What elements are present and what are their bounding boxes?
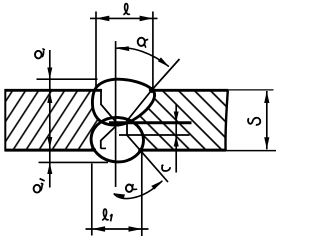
top alpha arc with arrows bbox=[117, 48, 169, 67]
left plate right edge vertical bbox=[100, 90, 102, 105]
right plate root face bbox=[126, 120, 128, 136]
left plate bottom bevel wall bbox=[101, 127, 116, 149]
bead bottom reference line bbox=[39, 161, 109, 163]
bottom weld bead outline bbox=[90, 116, 145, 164]
g arrow up to plate top surface bbox=[47, 91, 52, 103]
g1 arrow up to bead bottom line bbox=[47, 163, 52, 174]
c dimension vertical line bbox=[175, 104, 177, 173]
label g (rotated) bbox=[35, 49, 45, 58]
bead top reference line bbox=[37, 78, 98, 80]
bottom alpha arc bbox=[114, 181, 163, 199]
l1 right arrowhead bbox=[129, 226, 142, 232]
label l1 (script ell + subscript) bbox=[102, 209, 108, 220]
top alpha left arrowhead bbox=[116, 46, 129, 51]
weld bead bottom (white fill oval) bbox=[90, 116, 145, 164]
dimension l: left arrowhead bbox=[96, 16, 109, 22]
left plate bottom edge bit under bead bbox=[101, 147, 106, 149]
l1 left arrowhead bbox=[92, 226, 105, 232]
right plate top bevel wall + extension above bbox=[127, 59, 180, 121]
S dimension line bbox=[266, 91, 268, 149]
g dimension vertical line bbox=[49, 50, 51, 188]
top weld bead outline bbox=[92, 79, 154, 125]
label l (script ell) bbox=[123, 4, 129, 15]
dimension l: dimension line bbox=[90, 17, 158, 19]
bottom alpha right arrowhead bbox=[151, 181, 163, 190]
label g1 (rotated) bbox=[34, 179, 45, 193]
dimension l: left extension line bbox=[95, 12, 97, 91]
bottom alpha left arrowhead bbox=[114, 193, 126, 199]
dimension l: right arrowhead bbox=[140, 16, 153, 22]
right plate top surface bbox=[150, 89, 228, 92]
left plate left edge bbox=[4, 89, 6, 151]
junction blob at top right toe bbox=[149, 87, 155, 93]
left plate top bevel wall bbox=[101, 104, 117, 122]
g1 arrow down to plate bottom bbox=[47, 137, 52, 148]
left plate bottom surface bbox=[5, 149, 97, 152]
dimension l: right extension line bbox=[152, 12, 154, 91]
label c (rotated) bbox=[162, 165, 171, 171]
l1 dimension line bbox=[86, 228, 149, 230]
c extension line lower bbox=[119, 134, 190, 136]
left plate top surface bbox=[5, 89, 103, 92]
S dimension: top extension line bbox=[228, 89, 274, 91]
c arrow down to upper line bbox=[174, 112, 179, 123]
c arrow up to lower line bbox=[174, 135, 179, 146]
right plate bottom surface bbox=[140, 149, 226, 152]
top alpha right arrowhead bbox=[158, 57, 170, 67]
label alpha bottom bbox=[126, 184, 137, 192]
l1 dimension: left extension line bbox=[91, 164, 93, 236]
right plate right edge bbox=[225, 91, 227, 151]
right plate (hatched body) bbox=[127, 91, 228, 150]
g arrow down to bead top line bbox=[47, 68, 52, 80]
right plate bottom bevel wall + extension below bbox=[127, 135, 168, 182]
S dimension: bottom extension line bbox=[226, 150, 276, 152]
junction blob at bottom oval right bbox=[138, 148, 143, 153]
left plate (hatched body) bbox=[5, 90, 116, 150]
label S (rotated) bbox=[248, 118, 260, 125]
S arrow down bbox=[264, 137, 269, 149]
l1 dimension: right extension line bbox=[141, 148, 143, 236]
weld bead top (white fill oval) bbox=[92, 79, 154, 125]
label alpha top bbox=[138, 38, 149, 48]
S arrow up bbox=[264, 91, 269, 103]
weld centerline bbox=[115, 41, 117, 187]
c extension line upper (thick) bbox=[109, 121, 192, 124]
